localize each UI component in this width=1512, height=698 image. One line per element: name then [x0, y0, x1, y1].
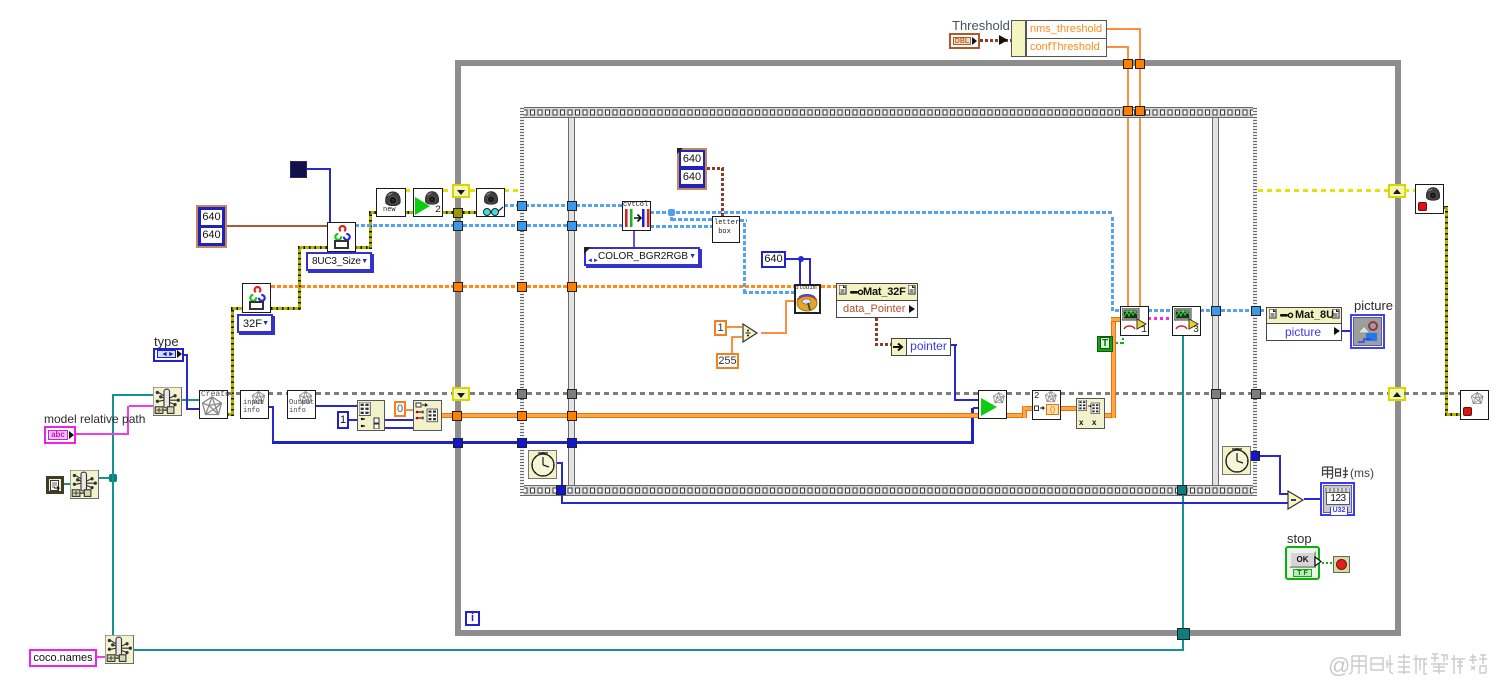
- node: DNN get result "2": [1032, 390, 1061, 420]
- wire: green dotted stop->loop condition: [1322, 562, 1333, 564]
- tunnel orange chain divider1: [567, 282, 577, 292]
- constant: coco.names: [29, 649, 97, 667]
- property node: Mat_8U: [1266, 307, 1342, 324]
- wire: error dashed inside loop frame crossings: [470, 392, 517, 395]
- label: stop: [1287, 531, 1312, 546]
- constant: 1 (orange): [714, 320, 727, 336]
- wire: orange thin divide->blob: [761, 332, 787, 334]
- wire: blue navy square const->8UC3 top: [307, 168, 331, 170]
- tunnel blue chain seq-right: [1251, 306, 1261, 316]
- dropdown: 32F: [237, 314, 273, 333]
- flat sequence: bottom film-strip border: [520, 485, 1257, 496]
- wire: olive chain 8UC3->loop tunnel: [355, 246, 372, 249]
- tunnel error seq-right: [1251, 389, 1261, 399]
- svg-text:x: x: [1092, 418, 1097, 427]
- wire: camera ref yellow SR->glasses: [470, 189, 477, 192]
- svg-text:(ms): (ms): [1350, 466, 1374, 480]
- node: 32F create Mat: [242, 283, 271, 313]
- svg-text:x: x: [1079, 418, 1084, 427]
- node: unbundle by name: [1011, 20, 1026, 57]
- while loop border: [455, 60, 1401, 636]
- constant: 640x640 cluster (top-left): [196, 205, 227, 248]
- node: app dir constant: [46, 476, 64, 494]
- wire: blue chain detect3->Mat_8U: [1200, 309, 1212, 312]
- wire: blue chain long run to detect node: [676, 211, 1113, 214]
- wire: brown dotted cluster2->letterbox: [707, 167, 724, 170]
- tunnel teal on loop bottom border: [1177, 628, 1190, 640]
- wire: blue pointer->forward: [951, 344, 957, 346]
- wire: olive Mat chain create->32F node: [227, 413, 234, 416]
- wire: blue chain letterbox->blob: [740, 219, 747, 222]
- control: type ring: [153, 348, 184, 362]
- constant: 0 (orange): [394, 401, 406, 417]
- control: Threshold DBL: [949, 33, 980, 49]
- indicator: picture (2D picture): [1350, 314, 1385, 349]
- tunnels orange on loop top border: [1135, 59, 1145, 69]
- wire: blue Mat_8U picture->picture indicator: [1342, 330, 1351, 332]
- wire: olive chain release camera -> release net: [1443, 206, 1448, 209]
- tunnel blue chain divider1 lower: [567, 221, 577, 231]
- flat sequence: left zigzag border: [520, 107, 524, 496]
- wire: teal vertical trunk: [112, 395, 114, 635]
- tunnel blue chain on loop left border: [453, 221, 463, 231]
- label: elapsed ms: [1321, 465, 1385, 480]
- tunnel blue chain seq-left lower: [517, 221, 527, 231]
- control: abc string path: [44, 426, 76, 444]
- wire: camera ref yellow dashed new->open: [405, 189, 413, 192]
- wire: blue input info->long bottom blue run: [272, 407, 274, 443]
- wire: error cluster dashed create->input info: [227, 392, 240, 395]
- constant: 640x640 cluster (in sequence): [677, 148, 707, 190]
- node: camera open "2": [413, 188, 443, 217]
- teal junction dot: [109, 474, 117, 482]
- wire: orange thick index array->forward: [442, 413, 453, 418]
- wire: olive chain 32F->8UC3 node: [271, 307, 301, 310]
- tunnel error seq-left: [517, 389, 527, 399]
- wire: camera ref yellow right of sequence: [1258, 189, 1389, 192]
- junction dot blue chain: [668, 209, 675, 216]
- label: Threshold: [952, 18, 1010, 33]
- constant: 255 (orange): [716, 353, 739, 369]
- wire: orange thin 255->divide: [731, 338, 733, 353]
- wire: teal long bottom run: [134, 649, 1184, 651]
- wire: blue type ring->Create: [183, 354, 188, 356]
- node: DNN forward (green play): [978, 390, 1007, 419]
- wire: teal build path->Create: [181, 399, 199, 401]
- wire: purple enum->cvtCol: [633, 231, 635, 247]
- flat sequence: right zigzag border: [1253, 107, 1257, 496]
- constant: True (green T): [1097, 336, 1113, 352]
- node: subtract: [1287, 490, 1307, 510]
- wire: brown dotted data_Pointer->pointer: [875, 318, 878, 346]
- node: detect draw 3: [1172, 306, 1201, 336]
- wire: error dashed node2->divider2: [1060, 392, 1211, 395]
- node: DNN input info: [240, 390, 269, 419]
- node: DNN Create: [199, 390, 228, 419]
- wire: camera ref yellow open2->shift register: [443, 189, 454, 192]
- wire: camera ref yellow SR->release camera: [1404, 189, 1416, 192]
- node: wait ms clock (frame1): [528, 450, 557, 479]
- node: tick count clock (frame3): [1222, 446, 1251, 475]
- node: detect draw 1: [1120, 306, 1149, 336]
- wire: blue subtract->indicator: [1304, 498, 1320, 500]
- tunnel error divider1: [567, 389, 577, 399]
- wire: error dashed divider2->seq right: [1221, 392, 1251, 395]
- dropdown: COLOR_BGR2RGB: [584, 247, 700, 266]
- wire: brown cluster 640x640->8UC3: [227, 225, 327, 227]
- node: release net: [1460, 390, 1489, 420]
- wire: orange thin nms_threshold down into loop: [1107, 28, 1141, 30]
- tunnel orange chain loop border: [453, 282, 463, 292]
- tunnel blue clock1 on seq bottom: [556, 485, 566, 495]
- node: array size: [357, 400, 385, 431]
- shift register right (camera ref): [1388, 184, 1406, 198]
- node: pointer value: [891, 338, 907, 356]
- wire: error dashed seq right->loop SR: [1261, 392, 1388, 395]
- wire: orange chain blob->Mat_32F: [821, 285, 837, 288]
- tunnel error divider2: [1211, 389, 1221, 399]
- wire: orange thin 0->index array: [406, 409, 413, 411]
- wire: teal vertical into loop to detect3: [1182, 335, 1184, 650]
- node: divide: [742, 323, 763, 343]
- wire: blue chain cvtCol->junction: [650, 211, 670, 214]
- tunnel blue seq-left y443: [517, 438, 527, 448]
- wire: teal path node A->junction: [98, 477, 114, 479]
- constant: 640 (blue): [761, 251, 786, 268]
- terminal: loop condition (red stop button): [1333, 556, 1350, 573]
- node: IMAQ create "new" camera: [376, 188, 406, 217]
- wire: error dashed forward->node2: [1007, 392, 1032, 395]
- tunnel blue chain divider2: [1211, 306, 1221, 316]
- wire: blue array size->index array (2 wires): [385, 419, 413, 421]
- black arrow into unbundle: [999, 35, 1008, 45]
- node: build path: [153, 387, 182, 416]
- constant: 1 (blue): [337, 411, 349, 429]
- wire: blue clock2->subtract: [1250, 451, 1260, 461]
- wire: error dashed SR->release net: [1404, 392, 1460, 395]
- wire: camera ref yellow glasses->sequence border: [504, 189, 521, 192]
- label: picture: [1354, 298, 1393, 313]
- wire: green bool T->detect1: [1112, 342, 1124, 344]
- wire: error dashed input info->output info: [268, 392, 287, 395]
- wire: orange thick reshape->detect1: [1105, 413, 1115, 418]
- node: index array: [413, 400, 442, 431]
- wire: blue chain junction->letterbox: [672, 218, 712, 221]
- wire: blue image chain 8UC3->cvtCol (lower): [355, 224, 453, 227]
- terminal: loop iteration i: [465, 611, 480, 626]
- indicator: elapsed time numeric: [1320, 482, 1355, 516]
- node: release camera: [1415, 184, 1444, 214]
- node: path node B: [105, 635, 134, 664]
- wire: brown dotted Threshold->unbundle: [980, 39, 1011, 42]
- label: model relative path: [44, 412, 145, 426]
- label: type: [154, 334, 179, 349]
- wire: pink string coco.names->path node B: [96, 656, 105, 658]
- wire: teal path file const->path node A: [62, 483, 70, 485]
- wire: orange thick node2->reshape: [1060, 406, 1076, 411]
- tunnel teal on seq bottom border: [1177, 485, 1187, 495]
- wire: error dashed output info->loop SR: [316, 392, 453, 395]
- constant: navy square: [290, 161, 307, 178]
- dropdown: 8UC3_Size: [306, 252, 372, 271]
- tunnel orange chain seq-left: [517, 282, 527, 292]
- wire: blue chain detect1->detect3: [1148, 309, 1172, 312]
- node: path node A: [70, 470, 99, 499]
- wire: magenta dotted detect1->detect3: [1148, 317, 1172, 320]
- tunnel blue on loop border y443: [453, 438, 463, 448]
- control: stop OK button: [1285, 546, 1320, 580]
- flat sequence: frame divider 1: [568, 118, 575, 485]
- wire: blue 640->blob (two branches): [786, 258, 811, 260]
- tunnel blue chain seq-left upper: [517, 201, 527, 211]
- watermark: [1328, 652, 1494, 680]
- shift register left (camera ref): [452, 184, 470, 198]
- flat sequence: top film-strip border: [520, 107, 1257, 118]
- tunnel blue chain divider1 upper: [567, 201, 577, 211]
- wire: pink string abc->build path: [76, 433, 129, 435]
- node: 8UC3 create Mat: [327, 222, 356, 252]
- svg-text:@: @: [1328, 653, 1350, 678]
- wire: olive chain tunnel->glasses node: [463, 211, 477, 214]
- wire: blue clock1->long run to subtract: [556, 462, 563, 464]
- wire: blue Output info->array size node: [316, 405, 357, 407]
- shift register right (error): [1388, 387, 1406, 401]
- wire: blue image chain glasses->cvtCol (upper): [504, 204, 520, 207]
- wire: orange thin 1 div const->divide: [727, 326, 742, 328]
- node: letterbox: [712, 216, 740, 243]
- node: blobFromImage: [794, 284, 821, 314]
- node: cvtColor: [622, 201, 651, 231]
- node: array reshape: [1076, 398, 1105, 429]
- wire: orange thin confThreshold down into loop: [1107, 46, 1129, 48]
- wire: orange thick forward->node2: [1007, 413, 1027, 418]
- flat sequence: frame divider 2: [1212, 118, 1219, 485]
- tunnel blue divider1 y443: [567, 438, 577, 448]
- wire: teal to build path node: [112, 394, 153, 396]
- node: DNN Output info: [287, 390, 316, 419]
- property node: Mat_32F: [836, 283, 918, 301]
- wire: orange Mat32F chain 32F node->blob: [271, 285, 454, 288]
- tunnel olive on loop left border: [453, 208, 463, 218]
- wire: blue 1->array size node: [349, 419, 357, 421]
- node: camera read (glasses): [476, 188, 505, 217]
- shift register left (error): [452, 387, 470, 401]
